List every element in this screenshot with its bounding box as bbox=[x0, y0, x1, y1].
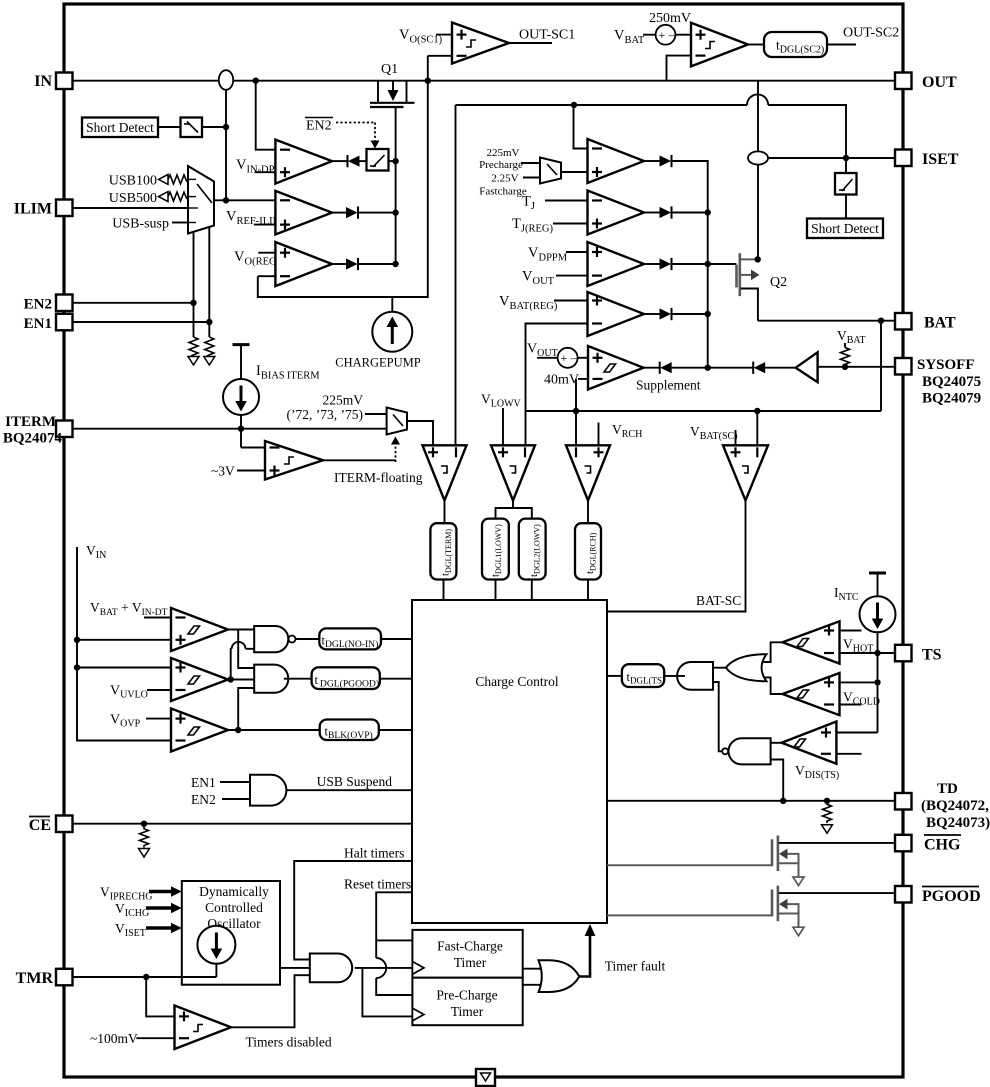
op-amp OUT-SC2 comparator bbox=[691, 23, 748, 67]
wire LOWV fork to deglitch blocks bbox=[496, 501, 532, 519]
wire tBLK(OVP) to charge control bbox=[379, 729, 412, 731]
node TD NAND tap bbox=[780, 798, 786, 804]
dotted EN2 control line with arrow into switch bbox=[336, 123, 380, 149]
node ISET switch tap bbox=[843, 155, 849, 161]
wire bubble to Q2 drain bbox=[757, 165, 759, 260]
svg-text:Halt timers: Halt timers bbox=[344, 846, 404, 861]
pin EN2 bbox=[24, 295, 73, 313]
wire comparator A to AND (v1) bbox=[238, 630, 254, 669]
pin SYSOFF (BQ24075 BQ24079) bbox=[895, 357, 981, 407]
wire fastcharge input bbox=[523, 177, 540, 179]
charge-mode reference mux bbox=[540, 158, 561, 184]
Short Detect block (ISET) bbox=[807, 219, 883, 239]
wire supplement output bbox=[644, 367, 660, 369]
Short Detect block (input) bbox=[82, 118, 158, 138]
AND gate pgood bbox=[254, 665, 288, 693]
node BAT sense bbox=[878, 318, 884, 324]
svg-text:Reset timers: Reset timers bbox=[344, 877, 411, 892]
op-amp ITERM charge-done comparator (down) bbox=[423, 445, 467, 500]
svg-text:EN2: EN2 bbox=[306, 119, 332, 134]
wire 225mV to mux bbox=[365, 413, 387, 415]
source VBAT+250mV bbox=[656, 25, 676, 45]
wire diode to EN2 switch bbox=[360, 160, 367, 162]
tDGL2(LOWV) deglitch block bbox=[519, 519, 546, 580]
wire VIN to comparator B plus bbox=[77, 667, 171, 669]
svg-text:Timer: Timer bbox=[454, 955, 487, 970]
svg-text:OUT-SC2: OUT-SC2 bbox=[843, 26, 899, 41]
wire comparator to tDGL(RCH) bbox=[587, 501, 589, 524]
node bus TJ bbox=[705, 209, 711, 215]
wire left sense leg down to ITERM comparator bbox=[455, 105, 457, 445]
svg-text:ITERM: ITERM bbox=[5, 414, 56, 430]
wire VLOWV stub bbox=[502, 408, 504, 445]
EN2 control label (overline) bbox=[305, 118, 333, 134]
op-amp DPPM comparator bbox=[588, 242, 645, 286]
wire TMR pin line bbox=[72, 976, 216, 978]
wire comparator output to dotted arrow bbox=[323, 459, 396, 461]
current source IBIAS bbox=[223, 379, 259, 415]
svg-text:Charge Control: Charge Control bbox=[475, 674, 559, 689]
tDGL(TS) deglitch block bbox=[622, 664, 665, 687]
wire from bubble down to mux output node bbox=[225, 90, 227, 201]
pin EN1 bbox=[24, 314, 73, 332]
svg-text:ILIM: ILIM bbox=[14, 201, 52, 218]
svg-text:–: – bbox=[570, 351, 578, 365]
svg-text:~3V: ~3V bbox=[211, 464, 235, 479]
svg-text:PGOOD: PGOOD bbox=[922, 888, 981, 905]
wire comparator to diode bbox=[332, 160, 348, 162]
wire comparator to AND bbox=[231, 975, 310, 1027]
op-amp ITERM-floating comparator bbox=[265, 441, 323, 480]
svg-text:ISET: ISET bbox=[922, 151, 959, 168]
op-amp battery short comparator (down) bbox=[723, 445, 768, 500]
svg-text:IN: IN bbox=[34, 73, 52, 90]
wire diode to gate bus node bbox=[672, 367, 754, 369]
diode D3 bbox=[346, 258, 358, 270]
wire SC2 output to deglitch bbox=[748, 44, 764, 46]
wire VO(SC1) stub bbox=[436, 34, 452, 36]
svg-text:250mV: 250mV bbox=[649, 11, 691, 26]
wire diode to gate bus bbox=[358, 263, 396, 265]
node Q2 drain bbox=[755, 256, 761, 262]
wire ISET sense loop (hops over Q2 branch) bbox=[456, 94, 847, 158]
node TMR tap bbox=[143, 974, 149, 980]
supply bar INTC bbox=[869, 573, 886, 596]
wire VIN to comparator plus bbox=[77, 639, 171, 641]
svg-text:ITERM-floating: ITERM-floating bbox=[334, 470, 423, 485]
wire comparator to diode bbox=[332, 263, 346, 265]
wire to diode bbox=[644, 212, 660, 214]
wire deglitch to OUT-SC2 bbox=[827, 44, 856, 46]
op-amp UVLO comparator bbox=[171, 658, 228, 701]
2.25V Fastcharge label bbox=[479, 173, 527, 198]
tBLK(OVP) deglitch block bbox=[320, 720, 379, 742]
op-amp VDIS(TS) comparator (points left) bbox=[782, 722, 837, 764]
svg-text:BAT-SC: BAT-SC bbox=[696, 593, 741, 608]
wire VO(REG) reference stub bbox=[258, 252, 275, 254]
wire diode to gate bus bbox=[672, 313, 708, 315]
svg-text:USB Suspend: USB Suspend bbox=[317, 774, 393, 789]
wire mux output to ITERM comparator plus bbox=[407, 421, 433, 445]
wire BAT rail bbox=[758, 320, 895, 322]
diode D7 bbox=[660, 308, 672, 320]
arrow VIPRECHG into oscillator bbox=[149, 886, 182, 896]
svg-text:OUT: OUT bbox=[922, 74, 957, 91]
wire ILIM pin to mux bbox=[72, 207, 188, 209]
wire VDPPM stub bbox=[566, 251, 588, 253]
current source oscillator bbox=[197, 926, 235, 977]
ITERM reference mux bbox=[387, 408, 407, 435]
tDGL(TERM) deglitch block bbox=[430, 523, 456, 579]
svg-text:Timer: Timer bbox=[451, 1004, 484, 1019]
wire VIN sense rail bbox=[77, 547, 171, 741]
wire precharge comparator minus from ISET sense bbox=[574, 105, 588, 149]
wire tDGL(NO-IN) to charge control bbox=[381, 638, 412, 640]
wire VBAT to source bbox=[643, 34, 656, 36]
wires LOWV blocks to charge control bbox=[496, 580, 532, 601]
pin ILIM bbox=[14, 200, 73, 218]
source VOUT-40mV bbox=[558, 348, 578, 368]
wire to diode bbox=[644, 160, 660, 162]
op-amp battery regulation comparator bbox=[588, 292, 645, 336]
svg-text:(BQ24072,: (BQ24072, bbox=[921, 798, 989, 814]
wire tDGL(RCH) to charge control bbox=[587, 580, 589, 601]
node mux output / IN sense bbox=[223, 197, 229, 203]
wire timer fault arrow into charge control bbox=[579, 924, 595, 977]
node precharge comparator tap bbox=[571, 102, 577, 108]
svg-text:Fastcharge: Fastcharge bbox=[479, 186, 527, 198]
svg-text:BQ24079: BQ24079 bbox=[922, 391, 981, 407]
ground arrow EN1 bbox=[204, 357, 215, 366]
wire VHOT output to OR bbox=[764, 642, 783, 662]
CHARGEPUMP bbox=[335, 297, 420, 370]
Pre-Charge Timer block bbox=[412, 978, 522, 1025]
svg-text:EN2: EN2 bbox=[24, 297, 52, 313]
pin BAT bbox=[895, 313, 956, 332]
wire USB Suspend to charge control bbox=[286, 789, 412, 791]
svg-text:CHARGEPUMP: CHARGEPUMP bbox=[335, 356, 420, 370]
transistor CHG open-drain bbox=[772, 836, 895, 886]
svg-text:Supplement: Supplement bbox=[636, 378, 701, 393]
wire NAND to tDGL(NO-IN) bbox=[295, 638, 320, 640]
switch S2 (EN2 controlled) bbox=[367, 149, 389, 171]
node on IN rail bbox=[253, 78, 259, 84]
wire halt timers bbox=[294, 861, 412, 960]
svg-text:CHG: CHG bbox=[924, 837, 961, 854]
wire IN/OUT top rail bbox=[72, 80, 219, 82]
wire SC2 minus from OUT rail bbox=[667, 56, 692, 81]
resistor pulldown on EN1 leg bbox=[205, 337, 214, 357]
svg-text:Precharge: Precharge bbox=[479, 159, 523, 171]
wire diode to Q2 gate bus (top corner) bbox=[672, 161, 708, 368]
wire EN2 to AND bbox=[222, 798, 250, 800]
wire VBAT(SC) stub bbox=[735, 430, 737, 445]
wire comparator C output to tBLK(OVP) bbox=[228, 729, 320, 731]
wire ITERM to comparator minus bbox=[241, 447, 265, 449]
pin CHG (active low) bbox=[895, 835, 961, 854]
wire TJ(REG) stub bbox=[553, 223, 588, 225]
wire TD line bbox=[607, 800, 895, 802]
wire oscillator output to AND bbox=[280, 967, 310, 969]
NAND gate no-input bbox=[254, 626, 295, 652]
wire EN1 pin bbox=[72, 321, 209, 323]
AND gate timer clock bbox=[310, 954, 352, 983]
node bus BAT(REG) bbox=[705, 311, 711, 317]
wire comparator A output to NAND bbox=[228, 629, 254, 631]
ground arrow TD bbox=[822, 825, 833, 834]
wire RCH minus from BAT sense bbox=[575, 411, 577, 445]
svg-text:EN1: EN1 bbox=[24, 316, 52, 332]
op-amp VREF-ILIM comparator bbox=[275, 191, 332, 235]
svg-text:USB-susp: USB-susp bbox=[112, 217, 169, 232]
wire IBIAS to ITERM line bbox=[240, 415, 242, 448]
wire BAT-SC to charge control bbox=[607, 501, 746, 612]
op-amp recharge comparator (down) bbox=[566, 445, 610, 500]
svg-text:BQ24074: BQ24074 bbox=[3, 431, 63, 447]
wire VDIS stub bbox=[836, 753, 861, 755]
op-amp LOWV comparator (down) bbox=[491, 445, 535, 500]
wire VCOLD plus from TS bbox=[840, 681, 878, 683]
wire ITERM pin line bbox=[72, 428, 387, 430]
svg-text:TS: TS bbox=[922, 647, 942, 664]
wire switch to gate bus bbox=[389, 160, 396, 162]
wire switch to IN sense line bbox=[202, 126, 226, 128]
svg-text:+: + bbox=[659, 28, 666, 42]
resistor CE pulldown bbox=[140, 824, 149, 848]
wire OR to AND bbox=[713, 667, 728, 669]
wire diode to buffer bbox=[765, 367, 796, 369]
transistor Q2 bbox=[737, 253, 760, 321]
svg-text:225mV: 225mV bbox=[487, 147, 520, 159]
svg-text:225mV: 225mV bbox=[323, 393, 364, 408]
wire VO(REG) feedback from OUT bbox=[258, 56, 428, 297]
tDGL(PGOOD) deglitch block bbox=[312, 667, 380, 689]
tDGL(RCH) deglitch block bbox=[575, 523, 601, 579]
node BAT-SC tap bbox=[754, 408, 760, 414]
svg-text:SYSOFF: SYSOFF bbox=[917, 357, 975, 373]
switch S3 (ISET short detect) bbox=[835, 173, 857, 195]
arrow VISET into oscillator bbox=[146, 923, 182, 933]
op-amp OUT-SC1 comparator bbox=[452, 23, 509, 64]
wire diode through bus to Q2 gate bbox=[672, 263, 737, 265]
svg-text:Q1: Q1 bbox=[381, 62, 398, 77]
VDIS(TS) comparator wire to NAND bbox=[771, 742, 782, 744]
node TD pulldown bbox=[824, 798, 830, 804]
wire EN2 pin bbox=[72, 302, 194, 304]
wire comparator to tDGL(TERM) bbox=[444, 501, 446, 524]
svg-text:+: + bbox=[561, 351, 568, 365]
svg-text:BQ24073): BQ24073) bbox=[926, 815, 990, 831]
svg-text:2.25V: 2.25V bbox=[491, 173, 518, 185]
wire VBAT+VIN-DT stub bbox=[144, 617, 171, 619]
node gate bus REG bbox=[392, 261, 398, 267]
node VIN tap A bbox=[74, 637, 80, 643]
op-amp precharge threshold comparator bbox=[588, 139, 645, 183]
resistor pulldown on EN2 leg bbox=[189, 337, 198, 357]
Charge Control block bbox=[412, 600, 607, 923]
wire mux output to VREF-ILIM comparator bbox=[214, 199, 275, 201]
diode D8 (cathode left) bbox=[660, 362, 672, 374]
diode D1 (reversed, cathode left) bbox=[348, 155, 360, 167]
wire clock branch to pre-charge timer bbox=[362, 968, 412, 1017]
svg-text:USB500: USB500 bbox=[109, 191, 157, 206]
node: short-detect switch to IN sense bbox=[223, 124, 229, 130]
svg-text:Q2: Q2 bbox=[770, 275, 787, 290]
wire fast-charge timer to OR bbox=[523, 968, 545, 970]
wire to diode bbox=[644, 263, 660, 265]
wire ISET pin line bbox=[768, 157, 895, 159]
current sense bubble ISET bbox=[748, 151, 768, 164]
svg-text:Fast-Charge: Fast-Charge bbox=[437, 939, 503, 954]
wire comparator B to NAND with hop bbox=[231, 642, 255, 680]
diode D5 bbox=[660, 206, 672, 218]
node EN1 bbox=[206, 319, 212, 325]
svg-text:EN1: EN1 bbox=[191, 775, 216, 790]
wire VBAT(REG) stub bbox=[554, 300, 588, 302]
arrow VICHG into oscillator bbox=[146, 903, 182, 913]
svg-text:Short Detect: Short Detect bbox=[811, 221, 879, 236]
AND gate TS (points left) bbox=[677, 662, 713, 690]
pin ISET bbox=[895, 150, 959, 169]
wire AND to tDGL(PGOOD) bbox=[284, 678, 312, 680]
resistor TD pulldown bbox=[823, 801, 832, 823]
wire switch to short detect bbox=[845, 195, 847, 219]
svg-text:CE: CE bbox=[29, 817, 51, 834]
svg-text:~100mV: ~100mV bbox=[90, 1031, 138, 1046]
USB500 resistor input bbox=[109, 191, 189, 206]
ground arrow EN2 bbox=[188, 357, 199, 366]
OR gate timer fault bbox=[539, 960, 580, 992]
OR gate TS window (points left) bbox=[726, 654, 767, 681]
diode D9 (cathode left) bbox=[753, 362, 765, 374]
wire SC1 minus input bbox=[428, 55, 452, 57]
pin TMR bbox=[16, 969, 73, 987]
op-amp VIN-DPM comparator bbox=[275, 140, 332, 184]
node TS bbox=[874, 650, 880, 656]
pin PGOOD (active low) bbox=[895, 886, 981, 905]
wire supplement minus stub / BAT sense tap bbox=[576, 379, 588, 411]
current source INTC bbox=[860, 596, 896, 632]
AND gate usb-suspend bbox=[250, 775, 286, 806]
node CE pulldown bbox=[141, 821, 147, 827]
wire pre-charge timer to OR bbox=[523, 984, 545, 986]
wire VCOLD output to OR bbox=[764, 677, 783, 694]
svg-text:40mV: 40mV bbox=[544, 373, 579, 388]
node TS to VCOLD bbox=[874, 679, 880, 685]
wire diode to gate bus bbox=[358, 212, 396, 214]
wire LOWV minus from BAT sense bbox=[525, 411, 527, 445]
svg-text:USB100: USB100 bbox=[109, 174, 157, 189]
op-amp OVP comparator bbox=[171, 709, 228, 752]
wire VHOT stub bbox=[840, 630, 862, 632]
wire VDIS plus from TS sense bbox=[836, 732, 877, 734]
transistor PGOOD open-drain bbox=[772, 886, 895, 936]
node EN2 bbox=[190, 300, 196, 306]
wire BAT sense horizontal bbox=[526, 410, 882, 412]
wire VOUT stub bbox=[556, 275, 588, 277]
op-amp VHOT comparator (points left) bbox=[783, 621, 840, 663]
node comparator B output bbox=[228, 676, 234, 682]
op-amp input-present comparator bbox=[171, 608, 228, 651]
svg-text:BAT: BAT bbox=[924, 315, 956, 332]
node bus DPPM bbox=[705, 261, 711, 267]
wire short detect to switch bbox=[158, 126, 181, 128]
wire to diode bbox=[644, 313, 660, 315]
wire TJ stub bbox=[545, 200, 588, 202]
NAND gate TS-disable (points left) bbox=[722, 738, 770, 764]
wire VRCH stub bbox=[598, 423, 600, 446]
wire PGOOD gate from charge control bbox=[607, 914, 772, 916]
wire tDGL(PGOOD) to charge control bbox=[380, 678, 412, 680]
wire INTC to TS line bbox=[877, 632, 879, 653]
225mV ('72,'73,'75) label bbox=[287, 393, 364, 423]
wire BAT sense to comparator minus bbox=[526, 324, 588, 412]
node ITERM bbox=[238, 426, 244, 432]
svg-text:Dynamically: Dynamically bbox=[199, 884, 269, 899]
wire comparator C to AND (v2) bbox=[238, 688, 254, 730]
ILIM select mux bbox=[188, 166, 214, 234]
op-amp thermal regulation comparator bbox=[588, 191, 645, 235]
wire CE pin to charge control bbox=[72, 823, 412, 825]
wire ~100mV stub bbox=[136, 1037, 174, 1039]
wire precharge input bbox=[521, 162, 540, 164]
wire TS sense down bbox=[877, 653, 879, 733]
pin TS bbox=[895, 645, 942, 664]
wire CHG gate from charge control bbox=[607, 864, 772, 866]
wire BAT-SC minus from BAT sense bbox=[756, 411, 758, 445]
wire mux select EN1 leg bbox=[208, 227, 210, 337]
wire VREF-ILIM reference stub bbox=[254, 224, 276, 226]
tDGL1(LOWV) deglitch block bbox=[482, 519, 509, 580]
wire comparator to diode bbox=[332, 212, 346, 214]
wire AND to tDGL(TS) bbox=[664, 675, 685, 677]
buffer U1 (SYSOFF, points left) bbox=[796, 352, 818, 382]
diode D6 bbox=[660, 258, 672, 270]
wire VIN-DPM reference stub bbox=[255, 171, 276, 173]
wire Q2 branch from OUT rail to sense bubble bbox=[757, 81, 759, 152]
svg-text:OUT-SC1: OUT-SC1 bbox=[519, 28, 575, 43]
op-amp supplement mode comparator bbox=[588, 346, 644, 390]
node resistor SYSOFF bbox=[842, 364, 848, 370]
svg-text:Pre-Charge: Pre-Charge bbox=[436, 988, 497, 1003]
svg-text:Short Detect: Short Detect bbox=[86, 120, 154, 135]
wire mux select EN2 leg bbox=[193, 232, 195, 337]
wire IN sense to VIN-DPM comparator minus bbox=[256, 81, 276, 150]
tDGL(NO-IN) deglitch block bbox=[319, 628, 381, 650]
svg-text:–: – bbox=[668, 28, 676, 42]
wire EN1 to AND bbox=[220, 781, 250, 783]
wire BAT sense down bbox=[880, 321, 882, 411]
wire source to SC2 plus bbox=[675, 34, 691, 36]
transistor Q1 (input PMOS) bbox=[370, 81, 415, 107]
svg-text:BQ24075: BQ24075 bbox=[922, 374, 981, 390]
node gate bus bottom bbox=[705, 365, 711, 371]
wire source to supplement plus bbox=[578, 357, 588, 359]
wire TS pin line bbox=[840, 652, 896, 654]
node VIN tap B bbox=[74, 664, 80, 670]
svg-text:EN2: EN2 bbox=[191, 792, 216, 807]
pin ITERM (BQ24074) bbox=[3, 414, 73, 447]
tDGL(SC2) deglitch block bbox=[764, 32, 827, 57]
op-amp timers-disabled comparator bbox=[175, 1006, 232, 1050]
wire tDGL(TS) to charge control bbox=[607, 675, 622, 677]
USB-susp input bbox=[112, 217, 188, 232]
pin OUT bbox=[895, 73, 957, 92]
node feedback on OUT rail bbox=[425, 78, 431, 84]
pin IN bbox=[34, 73, 72, 91]
Fast-Charge Timer block bbox=[412, 930, 522, 978]
wire tDGL(TERM) to charge control bbox=[443, 580, 445, 601]
